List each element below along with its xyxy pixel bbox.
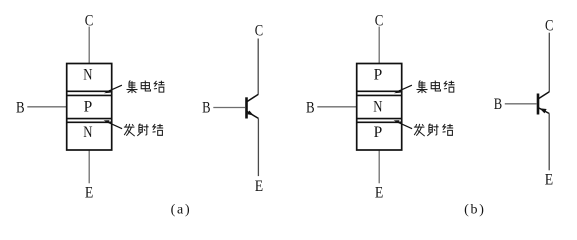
- wire emitter vertical: [548, 113, 550, 170]
- emitter arrowhead (NPN, pointing out): [247, 111, 253, 116]
- svg-text:N: N: [83, 67, 92, 84]
- svg-text:E: E: [545, 171, 553, 188]
- svg-text:B: B: [202, 100, 210, 117]
- base bar: [537, 94, 540, 115]
- wire collector vertical: [257, 39, 259, 95]
- emitter diagonal: [247, 111, 259, 118]
- wire collector vertical: [548, 33, 550, 92]
- wire base lead: [213, 107, 245, 109]
- svg-text:C: C: [255, 23, 263, 40]
- svg-text:B: B: [494, 96, 502, 113]
- svg-text:(b): (b): [464, 203, 485, 218]
- wire base lead: [505, 103, 537, 105]
- svg-text:C: C: [545, 18, 553, 35]
- collector diagonal: [247, 94, 258, 101]
- svg-text:P: P: [374, 67, 383, 84]
- emitter arrowhead (PNP, pointing in): [540, 108, 547, 113]
- svg-text:(a): (a): [171, 203, 192, 218]
- collector diagonal: [538, 92, 549, 99]
- emitter diagonal: [538, 108, 549, 114]
- svg-text:P: P: [374, 124, 383, 141]
- svg-text:N: N: [83, 124, 92, 141]
- svg-text:E: E: [255, 178, 263, 195]
- svg-text:N: N: [373, 99, 382, 116]
- base bar: [245, 97, 248, 118]
- wire emitter vertical: [257, 118, 259, 176]
- svg-text:P: P: [84, 99, 93, 116]
